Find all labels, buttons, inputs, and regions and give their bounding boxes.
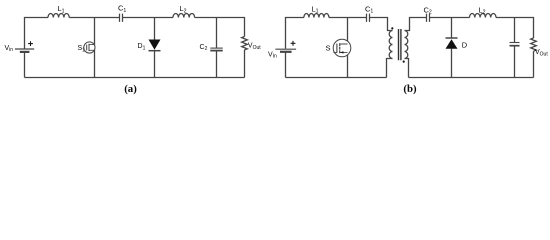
inductor L2 — [173, 13, 195, 17]
wire battery to bottom rail — [24, 52, 26, 77]
svg-text:VIn: VIn — [268, 51, 277, 59]
transistor S1 (MOSFET in circle) — [84, 42, 95, 53]
wire C2 branch bottom — [216, 51, 218, 78]
plus sign (a) — [28, 41, 33, 46]
wire L1 to C1 (b) — [329, 17, 367, 19]
svg-text:D: D — [462, 40, 468, 49]
transistor S (MOSFET in circle) — [333, 39, 351, 57]
plus sign (b) — [291, 41, 296, 46]
node dot primary top — [391, 27, 393, 29]
svg-text:(a): (a) — [124, 83, 137, 95]
wire C1 to L2 — [123, 17, 174, 19]
wire D branch bottom — [451, 49, 453, 78]
svg-text:Vin: Vin — [5, 45, 14, 53]
wire D branch top — [451, 18, 453, 39]
diode D — [446, 38, 458, 49]
wire battery to bottom rail (b) — [285, 52, 287, 77]
svg-text:(b): (b) — [403, 83, 417, 95]
wire C2 to L2 (b) — [430, 17, 470, 19]
wire output cap branch top — [514, 18, 516, 43]
wire L2 to top-right corner — [195, 18, 245, 37]
transformer secondary winding — [405, 31, 408, 59]
wire L1 to C1 — [69, 17, 119, 19]
wire load to bottom (b) — [533, 51, 535, 77]
capacitor output plates (b) — [510, 42, 520, 44]
resistor load (a) — [242, 37, 248, 50]
wire C2 branch top — [216, 18, 218, 48]
wire S branch — [347, 18, 349, 78]
svg-text:L1: L1 — [312, 4, 319, 14]
svg-text:D1: D1 — [138, 43, 146, 51]
wire top-left (Vin+ up to L1) — [25, 18, 49, 49]
wire top-left (Vin up to L1) — [286, 18, 304, 49]
svg-text:S: S — [326, 44, 331, 53]
wire load to bottom — [244, 50, 246, 78]
transformer primary winding — [389, 31, 392, 59]
capacitor C2 plates (b) — [427, 14, 430, 22]
svg-text:C2: C2 — [424, 5, 432, 15]
inductor L1 — [48, 13, 69, 17]
wire C1 to transformer primary — [370, 18, 393, 31]
wire bottom rail primary — [286, 77, 387, 79]
resistor load (b) — [531, 38, 537, 51]
svg-text:VOut: VOut — [535, 49, 548, 57]
capacitor C2 plates — [210, 47, 222, 49]
diode D1 — [149, 40, 161, 51]
svg-text:C1: C1 — [118, 4, 126, 14]
wire bottom rail secondary — [409, 77, 534, 79]
capacitor C1 — [120, 14, 123, 22]
svg-text:L2: L2 — [180, 4, 187, 14]
svg-text:C1: C1 — [365, 4, 373, 14]
wire L2 to top-right corner (b) — [496, 18, 534, 39]
wire secondary top to C2 — [405, 18, 427, 31]
wire D1 branch bottom — [154, 50, 156, 78]
wire D1 branch top — [154, 18, 156, 40]
capacitor C1 (b) — [367, 14, 370, 22]
wire output cap branch bottom — [514, 46, 516, 78]
battery Vin plates — [15, 48, 34, 50]
battery Vin plates (b) — [275, 48, 296, 50]
node dot secondary bottom — [403, 61, 405, 63]
svg-text:VOut: VOut — [248, 43, 261, 51]
wire secondary bottom to rail — [405, 59, 409, 78]
svg-text:L1: L1 — [58, 4, 65, 14]
svg-text:L2: L2 — [479, 5, 486, 15]
wire S1 branch — [94, 18, 96, 78]
inductor L2 (b) — [470, 13, 497, 17]
wire bottom rail — [25, 77, 245, 79]
wire primary bottom to rail — [387, 59, 393, 78]
svg-text:C2: C2 — [200, 44, 208, 52]
transformer core — [399, 29, 401, 60]
inductor L1 (b) — [304, 14, 329, 18]
